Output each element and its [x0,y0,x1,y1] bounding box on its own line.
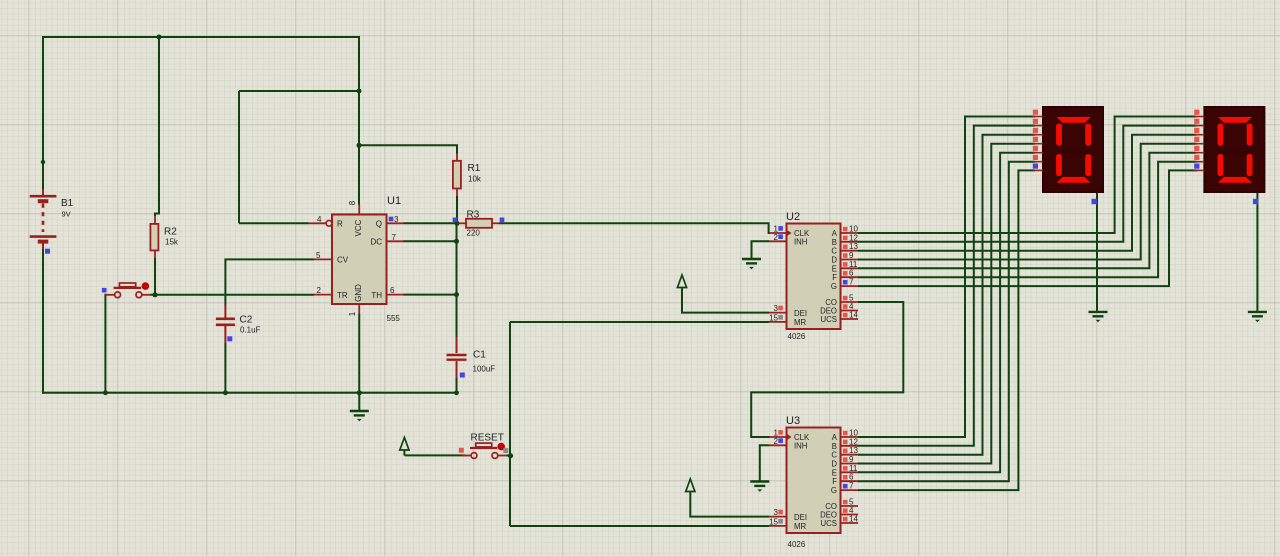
wire U3 segment G to left display [858,170,1035,490]
marker R3 left [453,218,458,223]
segment F [1056,124,1062,146]
svg-text:13: 13 [849,446,858,455]
svg-text:14: 14 [849,515,858,524]
svg-text:4: 4 [317,215,322,224]
node R2/TR/button junction [153,292,158,297]
segment E [1218,154,1224,176]
display left pin stubs [1033,117,1043,171]
wire reset-pin loop vertical x239 [238,91,240,223]
svg-text:0.1uF: 0.1uF [240,326,261,335]
svg-text:11: 11 [849,260,858,269]
svg-text:D: D [831,460,837,469]
svg-text:G: G [831,282,837,291]
U2 pin stubs [769,233,858,322]
svg-text:15: 15 [769,517,778,526]
svg-text:6: 6 [849,269,854,278]
svg-text:8: 8 [348,200,357,205]
svg-text:6: 6 [390,286,395,295]
segment C [1247,154,1253,176]
svg-text:1: 1 [348,311,357,316]
wire U2 segment C to right display [858,135,1197,251]
svg-text:4026: 4026 [788,332,806,341]
wire R3 to U2 CLK [499,223,770,233]
marker RESET left [459,448,464,453]
wire x456.5 vertical Q node to C1 [456,223,458,337]
svg-text:DC: DC [370,238,382,247]
svg-text:100uF: 100uF [473,365,496,374]
wire x359 vertical to VCC pin [358,36,360,205]
U3 pin state markers [843,431,848,436]
marker RESET right [503,448,508,453]
resistor R3 [459,222,499,224]
node C1-rail junction [454,390,459,395]
segment D [1057,177,1091,183]
wire U2 segment A to right display [858,117,1197,234]
IC U3 4026 body [787,428,841,534]
svg-text:UCS: UCS [821,315,837,324]
svg-text:7: 7 [849,482,854,491]
svg-text:R3: R3 [467,210,480,221]
wire VCC top rail [43,36,359,38]
wire CV pin5 to C2 [225,259,314,304]
svg-text:9V: 9V [62,210,71,219]
svg-text:2: 2 [774,437,779,446]
wire reset-pin loop horizontal y91 [239,90,359,92]
svg-text:10: 10 [849,225,858,234]
wire U2 segment B to right display [858,126,1197,242]
node junction y145/x359 [357,143,362,148]
svg-text:9: 9 [849,455,854,464]
wire RESET left with terminal [404,450,464,456]
svg-text:DEI: DEI [794,309,807,318]
svg-text:7: 7 [392,233,397,242]
wire U2 segment E to right display [858,153,1197,269]
ground symbol below 555 [350,411,369,421]
wire C2 bottom lead to rail [224,343,226,393]
ground symbol U2 INH [742,259,761,269]
marker C2 [227,336,232,341]
wire U2 segment D to right display [858,144,1197,260]
ground symbol left display [1089,312,1108,322]
segment G (off) [1059,151,1089,154]
wire U2 segment F to right display [858,162,1197,278]
svg-text:4026: 4026 [788,540,806,549]
svg-text:220: 220 [467,229,481,238]
U2 clock chevron [787,230,792,237]
svg-text:B: B [832,442,837,451]
svg-text:3: 3 [774,304,779,313]
wire U3 segment F to left display [858,162,1035,482]
svg-text:10k: 10k [468,175,482,184]
svg-text:TH: TH [371,291,382,300]
svg-text:R: R [337,219,343,228]
svg-text:2: 2 [774,233,779,242]
svg-text:D: D [831,256,837,265]
ground symbol right display [1248,312,1267,322]
svg-text:Q: Q [376,219,382,228]
ground symbol U3 INH [750,482,769,492]
terminal arrow RESET [400,438,409,451]
display right segment markers [1194,110,1199,115]
svg-text:INH: INH [794,442,807,451]
wire DC pin7 [404,240,457,242]
display right pin stubs [1194,117,1204,171]
wire button left leg down to rail [104,294,106,393]
svg-text:13: 13 [849,242,858,251]
segment E [1056,154,1062,176]
svg-text:DEI: DEI [794,513,807,522]
svg-text:E: E [832,264,837,273]
svg-text:F: F [832,477,837,486]
wire right display cathode to ground [1256,192,1258,312]
svg-text:15: 15 [769,313,778,322]
wire U3 segment B to left display [858,126,1035,446]
wire U2 DEI from terminal [682,287,769,313]
svg-text:CV: CV [337,256,349,265]
svg-text:C1: C1 [473,350,486,361]
wire left display cathode to ground [1096,192,1098,312]
svg-text:U3: U3 [786,415,800,427]
capacitor C2 [224,305,226,344]
wire R2 bottom to TR node [154,258,156,296]
node reset junction [508,453,513,458]
marker button blue [102,288,107,293]
resistor R2 [154,216,156,258]
node GND-rail junction [357,390,362,395]
RESET actuator dot [497,443,505,451]
svg-text:15k: 15k [165,238,179,247]
wire U3 segment A to left display [858,117,1035,438]
svg-text:14: 14 [849,311,858,320]
svg-text:6: 6 [849,473,854,482]
node junction y91/x359 [357,89,362,94]
svg-text:12: 12 [849,233,858,242]
terminal arrow U2 DEI [677,275,686,288]
node TH junction [454,292,459,297]
wire R1 top feed y145 [359,145,457,153]
svg-text:INH: INH [794,238,807,247]
svg-text:UCS: UCS [821,519,837,528]
wire RESET right to reset line [507,455,511,457]
node DC junction [454,239,459,244]
wire 555 GND pin to rail [358,314,360,393]
wire U2 MR to reset line [510,321,769,323]
wire bottom ground rail [42,392,457,394]
op-amp U1 555 timer body [332,215,387,305]
svg-text:G: G [831,486,837,495]
svg-text:C: C [831,247,837,256]
capacitor C1 [456,337,458,378]
svg-text:B: B [832,238,837,247]
U1 pin stubs [309,205,404,314]
wire R1 bottom lead to Q node [456,196,458,223]
wire U2 INH to ground [752,241,770,259]
U2 pin state markers [843,227,848,232]
svg-text:10: 10 [849,429,858,438]
IC U2 4026 body [787,224,841,330]
wire TH pin6 [404,294,457,296]
display right cathode marker [1253,199,1258,204]
segment F [1218,124,1224,146]
svg-text:9: 9 [849,251,854,260]
svg-text:RESET: RESET [471,433,504,444]
marker Q pin3 [389,217,394,222]
node C2-rail junction [223,390,228,395]
svg-text:E: E [832,468,837,477]
wire R2 top feed with jog [155,36,159,216]
node button-rail junction [103,390,108,395]
svg-text:5: 5 [316,251,321,260]
svg-text:A: A [832,433,838,442]
svg-text:C2: C2 [240,315,253,326]
svg-text:GND: GND [354,284,363,302]
U1 reset pin bubble [326,220,332,226]
segment B [1247,124,1253,146]
svg-text:555: 555 [387,314,401,323]
wire TR pin 2 run [150,294,314,296]
wire C1 bottom lead [456,378,458,393]
wire battery bottom to ground rail [42,249,44,394]
wire U3 MR run y523.5 [510,525,769,527]
wire U3 segment D to left display [858,144,1035,464]
segment A [1057,117,1091,123]
terminal arrow U3 DEI [686,479,695,492]
svg-text:F: F [832,273,837,282]
svg-text:VCC: VCC [354,219,363,236]
display right body [1204,107,1264,192]
svg-text:MR: MR [794,522,806,531]
wire U3 segment C to left display [858,135,1035,455]
wire reset vertical x510 [509,322,511,526]
resistor R1 [456,154,458,197]
segment C [1085,154,1091,176]
svg-text:C: C [831,451,837,460]
svg-text:B1: B1 [61,198,74,209]
display left cathode marker [1092,199,1097,204]
wire R pin 4 horizontal [239,222,309,224]
segment A [1218,117,1252,123]
node battery top junction [41,160,45,164]
wire Q pin3 to R3 [404,222,460,224]
segment B [1085,124,1091,146]
wire U3 DEI from terminal [690,491,769,517]
push button RESET [462,443,506,458]
wire battery top drop [42,36,44,189]
display left segment markers [1033,110,1038,115]
svg-text:3: 3 [394,215,399,224]
svg-text:U2: U2 [786,211,800,223]
svg-text:3: 3 [774,508,779,517]
segment G (off) [1220,151,1250,154]
U3 pin stubs [769,437,858,526]
push button (start) [106,283,151,298]
svg-text:U1: U1 [387,195,401,207]
svg-text:R1: R1 [468,163,481,174]
svg-text:TR: TR [337,291,348,300]
wire ground stem below 555 [358,393,360,411]
svg-text:A: A [832,229,838,238]
wire U3 segment E to left display [858,153,1035,473]
wire U3 INH to ground [760,445,769,481]
svg-text:MR: MR [794,318,806,327]
U3 clock chevron [787,434,792,441]
wire U2 segment G to right display [858,170,1197,286]
node top rail junction at R2 drop [157,35,162,40]
svg-text:7: 7 [849,278,854,287]
wire CO to U3 CLK chain [751,302,903,437]
marker C1 [460,373,465,378]
marker battery node [45,249,50,254]
button actuator dot [142,282,150,290]
svg-text:2: 2 [317,286,322,295]
marker R3 right [500,218,505,223]
battery B1 [30,189,57,249]
display left body [1043,107,1103,192]
svg-text:12: 12 [849,437,858,446]
node Q/R1/R3 junction [455,221,460,226]
segment D [1218,177,1252,183]
svg-text:R2: R2 [164,227,177,238]
svg-text:11: 11 [849,464,858,473]
